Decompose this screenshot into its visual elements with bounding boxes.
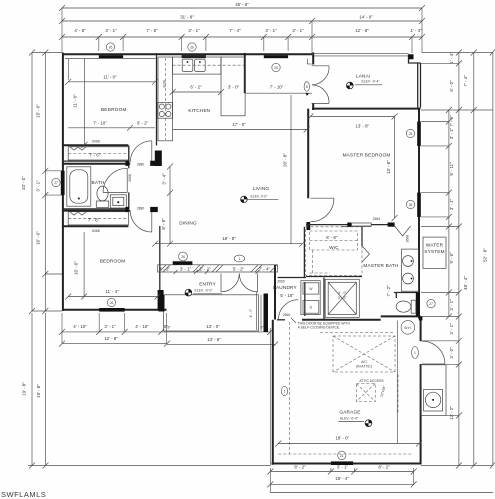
svg-text:3' - 0": 3' - 0" (228, 85, 240, 90)
svg-text:8: 8 (306, 85, 308, 89)
svg-text:45' - 4": 45' - 4" (463, 276, 468, 290)
svg-text:ELEV. 0'-0": ELEV. 0'-0" (251, 194, 269, 198)
svg-text:5' - 10": 5' - 10" (280, 293, 294, 298)
svg-text:W.H.: W.H. (404, 326, 411, 330)
svg-text:1: 1 (238, 257, 240, 261)
svg-text:26: 26 (109, 45, 113, 49)
svg-text:2660: 2660 (283, 313, 291, 317)
top exterior wall (62, 53, 312, 55)
left dimension column 33'-0" (21, 50, 35, 315)
WIC-laundry south wall (278, 277, 307, 279)
svg-text:13' - 8": 13' - 8" (355, 124, 369, 129)
self closing door note (291, 318, 351, 330)
svg-text:18' - 4": 18' - 4" (335, 476, 349, 481)
laundry washer-dryer counter (301, 281, 320, 315)
svg-text:3' - 1": 3' - 1" (337, 465, 349, 470)
svg-text:5' - 2": 5' - 2" (233, 266, 245, 271)
kitchen sink double (182, 59, 205, 71)
laundry W/D niche west wall (304, 282, 306, 316)
bedroom2 east wall lower stub (158, 290, 164, 310)
window marker 27 left wall (52, 178, 60, 186)
svg-text:4' - 10": 4' - 10" (135, 324, 149, 329)
svg-text:13' - 8": 13' - 8" (207, 337, 221, 342)
svg-text:3' - 2": 3' - 2" (137, 120, 149, 125)
garage east wall (420, 316, 422, 341)
lanai west wall upper stub (312, 53, 314, 65)
svg-text:3' - 4": 3' - 4" (162, 173, 167, 185)
svg-text:1: 1 (284, 389, 286, 393)
attic access dashed (356, 384, 375, 402)
laundry dryer (303, 301, 319, 314)
svg-text:LANAI: LANAI (356, 73, 371, 78)
svg-text:25: 25 (409, 203, 413, 207)
svg-text:2663: 2663 (373, 217, 381, 221)
closet1 south / bath north wall (62, 160, 128, 162)
garage interior dashed line left (289, 322, 291, 454)
svg-text:3' - 1": 3' - 1" (36, 180, 41, 192)
kitchen top counter (173, 57, 221, 74)
svg-text:10' - 0": 10' - 0" (36, 231, 41, 245)
bath toilet (96, 186, 108, 207)
svg-text:BATH: BATH (92, 180, 105, 185)
svg-text:2' - 2": 2' - 2" (159, 266, 171, 271)
entry-laundry west wall (274, 265, 276, 320)
svg-text:8' - 8": 8' - 8" (161, 218, 166, 230)
WIC shelving dashed (306, 227, 363, 276)
svg-text:7' - 10": 7' - 10" (93, 120, 107, 125)
pocket door leaf master bath (352, 223, 372, 226)
svg-text:7' - 2": 7' - 2" (386, 285, 391, 297)
bath door arc (103, 168, 127, 192)
svg-text:6' - 0": 6' - 0" (449, 80, 454, 92)
lanai / master bedroom north wall (312, 108, 421, 110)
living dim 20'-8" vertical (283, 95, 292, 244)
svg-text:3' - 1": 3' - 1" (265, 28, 277, 33)
entry porch dim 13'-8" (167, 328, 278, 466)
toilet room walls (395, 293, 397, 299)
svg-text:MASTER BATH: MASTER BATH (363, 263, 398, 268)
bedroom2 east wall (159, 226, 161, 309)
svg-text:SYSTEM: SYSTEM (424, 249, 444, 254)
AC in attic dashed platform (320, 333, 395, 373)
window marker 26 top center (188, 43, 196, 51)
right dimension column D overall 52'-8" (483, 50, 495, 469)
master bedroom south wall left part (306, 224, 352, 226)
svg-text:A/C: A/C (361, 360, 367, 364)
room label living + elev (248, 186, 279, 200)
garage south wall (272, 463, 421, 465)
window markers 25 master bedroom (406, 129, 414, 137)
svg-text:KITCHEN: KITCHEN (188, 108, 210, 113)
top extension lines (62, 8, 422, 53)
bedroom2 bottom exterior wall (62, 309, 167, 311)
window top wall bedroom1 (99, 55, 123, 58)
left extension lines (32, 53, 62, 312)
svg-text:1' - 4": 1' - 4" (410, 28, 422, 33)
window marker 21 garage (338, 451, 346, 459)
svg-text:25: 25 (274, 66, 278, 70)
room label lanai + elev (355, 73, 383, 85)
bedroom2 dim 10'-0" vertical (74, 232, 88, 300)
svg-text:3' - 1": 3' - 1" (188, 28, 200, 33)
right dimension column B (449, 50, 462, 469)
svg-text:3' - 1": 3' - 1" (104, 324, 116, 329)
laundry-garage door wall piece (277, 319, 285, 321)
svg-text:ATTIC ACCESS: ATTIC ACCESS (359, 379, 384, 383)
svg-text:3' - 1": 3' - 1" (449, 127, 454, 139)
closet1 north wall (62, 144, 128, 146)
svg-text:12' - 8": 12' - 8" (355, 28, 369, 33)
entry porch dim 13'-0" (167, 324, 273, 335)
master bedroom interior dim 13'-8" vertical (386, 117, 398, 222)
kitchen left counter strip (158, 57, 173, 141)
hall wall stub at kitchen (155, 151, 162, 167)
svg-text:19' - 8": 19' - 8" (22, 382, 27, 396)
garage 18'-0" dim (275, 436, 422, 447)
section marker entry (185, 289, 192, 296)
svg-text:4' - 8": 4' - 8" (74, 28, 86, 33)
svg-text:MASTER BEDROOM: MASTER BEDROOM (343, 153, 391, 158)
svg-text:13' - 2": 13' - 2" (449, 406, 454, 420)
room label entry + elev (193, 282, 222, 294)
garage south window bar (331, 461, 353, 465)
window master bedroom upper (417, 122, 421, 146)
svg-text:11' - 4": 11' - 4" (105, 289, 119, 294)
svg-text:4' - 0": 4' - 0" (338, 291, 347, 295)
lanai door marker oval (304, 82, 309, 96)
svg-text:7' - 5": 7' - 5" (146, 28, 158, 33)
master bedroom south wall pocket door rail (341, 226, 371, 228)
laundry washer (303, 283, 319, 294)
bath tub (67, 167, 91, 206)
svg-text:12' - 8": 12' - 8" (104, 336, 118, 341)
svg-text:52' - 8": 52' - 8" (483, 248, 488, 262)
svg-text:7' - 6": 7' - 6" (88, 218, 100, 223)
svg-text:27: 27 (429, 302, 433, 306)
dining dim 8'-8" vertical (161, 164, 173, 247)
svg-text:6' - 8": 6' - 8" (326, 235, 338, 240)
section marker garage (365, 420, 372, 427)
top dimension row 1 overall 45'-8" (59, 2, 425, 11)
room label garage + elev (339, 410, 365, 422)
svg-text:1: 1 (414, 351, 416, 355)
svg-text:26: 26 (110, 301, 114, 305)
svg-text:11' - 0": 11' - 0" (73, 94, 78, 108)
svg-text:17' - 0": 17' - 0" (232, 122, 246, 127)
svg-text:18' - 8": 18' - 8" (222, 236, 236, 241)
right dimension column A (window segments) (446, 107, 454, 320)
svg-text:11' - 0": 11' - 0" (103, 74, 117, 79)
master bedroom south wall right parts (371, 224, 394, 226)
garage interior vertical line right (396, 321, 398, 444)
svg-text:26: 26 (181, 255, 185, 259)
svg-text:3' - 1": 3' - 1" (105, 28, 117, 33)
kitchen dim 17'-0" (173, 122, 310, 133)
entry window bar (173, 261, 193, 264)
kitchen upper cabinets dashed centerline (164, 58, 166, 140)
svg-text:BEDROOM: BEDROOM (100, 259, 126, 264)
svg-text:2880: 2880 (137, 162, 145, 166)
svg-text:1' - 4": 1' - 4" (449, 52, 454, 64)
bath-hall east wall upper (128, 146, 130, 169)
window marker 25 kitchen (272, 63, 280, 71)
svg-text:A SELF-CLOSING DEVICE.: A SELF-CLOSING DEVICE. (298, 326, 340, 330)
svg-text:3' - 0": 3' - 0" (449, 347, 454, 359)
door marker oval garage side (412, 347, 419, 359)
garage side door arc (422, 341, 445, 364)
svg-text:6068: 6068 (92, 229, 100, 233)
left exterior wall (62, 53, 64, 312)
room label water system (423, 237, 446, 268)
WIC door chevrons (362, 246, 370, 262)
svg-text:45' - 8": 45' - 8" (235, 2, 249, 7)
lanai west wall lower stub (312, 103, 314, 110)
svg-text:9' - 6": 9' - 6" (449, 252, 454, 264)
svg-text:WATER: WATER (426, 243, 444, 248)
porch outline (164, 295, 259, 331)
left lower 19'-8" dimension pair (22, 313, 271, 469)
porch right wall stub (264, 294, 269, 333)
svg-text:2880: 2880 (137, 206, 145, 210)
svg-text:7' - 10": 7' - 10" (270, 85, 284, 90)
svg-text:19' - 8": 19' - 8" (36, 384, 41, 398)
svg-text:ENTRY: ENTRY (199, 282, 216, 287)
entry wall dims (159, 266, 271, 271)
svg-text:(IN ATTIC): (IN ATTIC) (356, 365, 372, 369)
svg-text:4' - 10": 4' - 10" (73, 324, 87, 329)
bedroom2 dim 11'-4" (65, 289, 160, 299)
laundry-garage door arc (279, 300, 299, 320)
right dimension column C (463, 50, 477, 469)
svg-text:3' - 2": 3' - 2" (338, 296, 347, 300)
svg-text:DINING: DINING (179, 221, 197, 226)
svg-text:GARAGE: GARAGE (339, 410, 360, 415)
svg-text:14' - 0": 14' - 0" (359, 15, 373, 20)
right extension lines (421, 53, 493, 466)
garage door header dashed (278, 453, 412, 455)
kitchen peninsula counter (221, 57, 245, 116)
window top wall kitchen left (182, 55, 206, 58)
master bedroom west wall lower stub (306, 222, 310, 230)
svg-text:20' - 8": 20' - 8" (283, 153, 288, 167)
garage east upper stub (419, 316, 423, 320)
laundry east wall (323, 278, 325, 320)
svg-text:18' - 0": 18' - 0" (335, 436, 349, 441)
window left wall bath (61, 171, 65, 195)
bath vanity sink (110, 195, 126, 208)
svg-text:8' - 2": 8' - 2" (294, 465, 306, 470)
master bedroom interior dim 13'-8" horizontal (307, 114, 397, 129)
left dimension column segments 15'-0" / 3'-1" / 10'-0" (36, 50, 49, 315)
svg-text:6' - 2": 6' - 2" (190, 85, 202, 90)
lanai corner stub black (409, 54, 414, 59)
svg-text:SWFLAMLS: SWFLAMLS (1, 490, 46, 499)
bottom-left house dim row 12'-8" (59, 313, 170, 347)
garage west wall (272, 320, 274, 465)
front entry double door (221, 274, 258, 292)
kitchen dim 6'-2" / 3'-0" (170, 85, 240, 96)
master bedroom entry door arc (310, 198, 334, 222)
svg-text:3' - 1": 3' - 1" (449, 299, 454, 311)
bedroom1 closet (68, 147, 128, 160)
kitchen range (158, 102, 173, 118)
toilet wall black right (416, 293, 420, 317)
WC door chevron (395, 226, 411, 236)
svg-text:ELEV. -0'-4": ELEV. -0'-4" (340, 417, 359, 421)
svg-text:25: 25 (409, 132, 413, 136)
svg-text:LIVING: LIVING (253, 186, 270, 191)
svg-text:33' - 0": 33' - 0" (21, 176, 26, 190)
svg-text:ELEV. -0'-0": ELEV. -0'-0" (195, 289, 214, 293)
svg-text:2668: 2668 (406, 235, 410, 243)
svg-text:4' - 0": 4' - 0" (249, 308, 253, 317)
door marker oval 1 entry (234, 255, 244, 262)
svg-text:3036: 3036 (163, 80, 167, 88)
svg-text:7' - 4": 7' - 4" (463, 75, 468, 87)
bedroom1 east wall (156, 53, 158, 146)
bottom garage dim row 18'-4" (267, 468, 416, 493)
svg-text:7' - 6": 7' - 6" (89, 153, 101, 158)
svg-text:7' - 4": 7' - 4" (229, 28, 241, 33)
label AC in attic (356, 360, 372, 369)
window top wall kitchen right (264, 55, 288, 58)
window marker 26 entry (179, 252, 188, 261)
WIC south wall (306, 276, 362, 278)
window marker 27 right side (427, 299, 435, 307)
master toilet (396, 300, 416, 313)
bottom-left house dim row 4'-10"/3'-1"/4'-10" (59, 324, 168, 335)
svg-text:13' - 0": 13' - 0" (206, 324, 220, 329)
bedroom1 dim 11'-0" vertical (65, 59, 156, 148)
lanai french doors (312, 66, 329, 104)
kitchen-living break line (245, 92, 312, 94)
bedroom2 closet (68, 212, 128, 225)
svg-text:LAUNDRY: LAUNDRY (273, 285, 297, 290)
svg-text:WIC: WIC (329, 245, 339, 250)
lanai top screen wall (312, 53, 409, 55)
window master bedroom lower (417, 193, 421, 217)
top dimension row 3 window segments (59, 28, 425, 40)
svg-text:8' - 2": 8' - 2" (378, 465, 390, 470)
section marker lanai (346, 82, 353, 89)
garage north wall (302, 319, 381, 321)
bedroom1 dim 11'-0" horizontal (65, 74, 158, 85)
section marker living (241, 196, 248, 203)
bath south / closet2 north wall (62, 208, 128, 210)
svg-text:21: 21 (340, 454, 344, 458)
svg-text:BEDROOM: BEDROOM (101, 107, 127, 112)
bottom garage dim row 8'-2"/3'-1"/8'-2" (267, 465, 416, 475)
window marker 26 bedroom2 bottom (107, 298, 115, 306)
porch left wall stub (159, 295, 165, 312)
top dimension row 2: 31'-8" and 14'-0" (59, 15, 425, 25)
svg-text:13' - 8": 13' - 8" (386, 160, 391, 174)
svg-text:3' - 1": 3' - 1" (449, 198, 454, 210)
AC platform dashed extension (397, 374, 399, 414)
svg-text:2' - 2": 2' - 2" (199, 266, 211, 271)
master vanity (401, 249, 418, 291)
entry north hatched wall (158, 265, 278, 274)
lanai top-right jog (409, 54, 421, 63)
svg-text:5' - 11": 5' - 11" (449, 162, 454, 176)
hall-bedroom2 door leaf and arc (130, 206, 152, 232)
svg-text:3' - 1": 3' - 1" (449, 323, 454, 335)
bottom outer dim line (270, 492, 493, 494)
svg-text:3' - 1": 3' - 1" (292, 28, 304, 33)
svg-text:27: 27 (54, 181, 58, 185)
master bedroom west wall (307, 109, 309, 199)
svg-text:3' - 1": 3' - 1" (180, 266, 192, 271)
master bath-shower divider walls (361, 227, 363, 246)
master suite right exterior wall (418, 108, 420, 319)
svg-text:10' - 0": 10' - 0" (74, 261, 79, 275)
lanai right screen wall (417, 63, 419, 108)
toilet room south wall / garage north right (381, 315, 421, 317)
window bedroom2 bottom (99, 308, 125, 312)
door marker oval garage left wall (281, 386, 287, 395)
living dim 18'-8" (152, 236, 305, 247)
svg-text:7' - 5": 7' - 5" (449, 115, 454, 127)
svg-text:6068: 6068 (92, 140, 100, 144)
kitchen peninsula east wall stub (244, 53, 246, 93)
laundry tub outside (421, 365, 446, 416)
closet2 south wall (62, 225, 128, 227)
water heater (401, 321, 415, 335)
WIC west wall (303, 227, 305, 278)
svg-text:15' - 0": 15' - 0" (36, 104, 41, 118)
svg-text:ELEV. -0'-4": ELEV. -0'-4" (362, 80, 381, 84)
svg-text:2660: 2660 (277, 279, 285, 283)
svg-text:7' - 4": 7' - 4" (259, 266, 271, 271)
svg-text:31' - 8": 31' - 8" (180, 15, 194, 20)
window marker 26 top left (106, 43, 114, 51)
bedroom1 dim 7'-10"/3'-2" (68, 120, 155, 131)
kitchen upper cabinet dashed over counter (173, 64, 244, 66)
hall-bedroom1 door wall stubs (126, 161, 129, 166)
master shower (325, 279, 359, 317)
svg-text:26: 26 (190, 45, 194, 49)
hall-bedroom1 door leaf and arc (130, 141, 152, 167)
hall-bedroom2 door wall stubs (126, 207, 129, 212)
svg-text:2668: 2668 (128, 174, 132, 182)
